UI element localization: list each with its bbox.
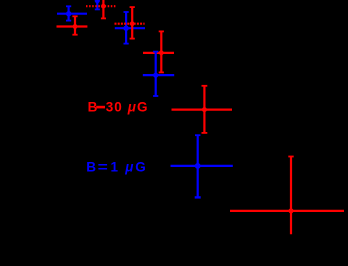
red point 2 (dotted h-bar, cut at top edge): [86, 0, 116, 18]
blue point 3: [115, 12, 145, 44]
svg-text:B=1μG: B=1μG: [86, 160, 146, 175]
red point 1: [57, 16, 88, 34]
blue point 4 (drawn over red point 4's h-bar): [143, 52, 174, 96]
red point 4: [143, 31, 174, 72]
red point 3 (dotted h-bar): [115, 7, 145, 38]
blue point 2 (cut at top edge): [95, 0, 100, 9]
blue point 1: [57, 6, 87, 20]
red series (B=30 uG model points): [57, 0, 345, 234]
red point 5 (B=30 labeled): [172, 86, 233, 133]
blue series (B=1 uG model points): [57, 0, 233, 197]
label B=1 uG: [86, 160, 146, 175]
label B=30 uG: [88, 100, 148, 115]
blue point 5 (B=1 labeled): [171, 135, 233, 197]
red point 6 (bottom right): [230, 157, 344, 235]
